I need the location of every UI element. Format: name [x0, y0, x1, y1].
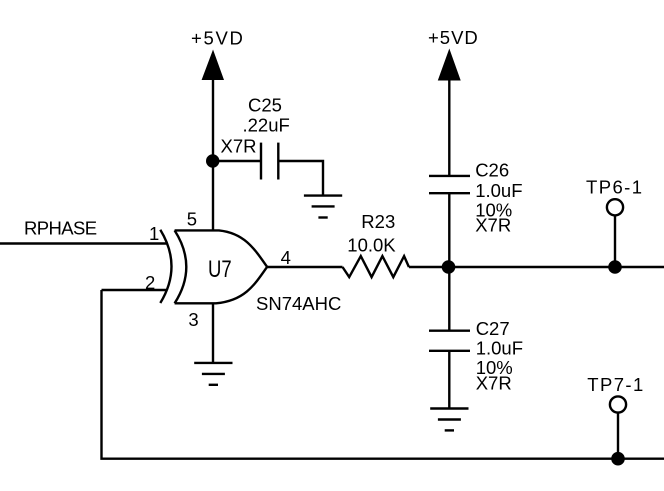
wire: junction to C27 [448, 267, 450, 331]
test point TP7-1 circle [610, 396, 626, 412]
ground (pin 3) [194, 363, 232, 385]
capacitor C27 labels [476, 318, 523, 394]
capacitor C26 [429, 176, 470, 193]
svg-text:1.0uF: 1.0uF [476, 338, 523, 359]
wire: C26 to junction [448, 193, 450, 267]
svg-text:5: 5 [187, 209, 197, 230]
resistor R23 labels [347, 211, 396, 256]
capacitor C25 value labels [221, 95, 290, 157]
svg-text:.22uF: .22uF [243, 115, 290, 136]
power +5VD (left) arrow symbol [202, 51, 223, 80]
node junction dot TP6-1 [608, 260, 622, 274]
svg-text:R23: R23 [361, 211, 395, 232]
wire: C25 right plate to ground [278, 161, 323, 196]
node junction dot at +5VD stem / C25 [206, 154, 219, 167]
node junction dot TP7-1 [611, 452, 625, 466]
svg-text:X7R: X7R [476, 373, 512, 394]
svg-text:1.0uF: 1.0uF [475, 180, 522, 201]
wire: gate output to R23 [267, 266, 342, 268]
svg-text:TP6-1: TP6-1 [586, 176, 643, 197]
svg-text:RPHASE: RPHASE [24, 218, 97, 239]
wire: +5VD left stem [212, 79, 214, 161]
svg-text:+5VD: +5VD [428, 27, 479, 48]
wire: feedback vertical and bottom run [102, 290, 664, 459]
wire: junction to C25 left plate [213, 160, 261, 162]
capacitor C25 [261, 143, 278, 180]
test point TP6-1 circle [607, 199, 623, 215]
wire: R23 to junction [409, 266, 449, 268]
ground (C25) [304, 196, 342, 218]
svg-text:U7: U7 [208, 256, 232, 283]
svg-text:2: 2 [145, 272, 155, 293]
wire: TP7-1 stem [617, 413, 619, 459]
svg-text:C26: C26 [475, 160, 509, 181]
svg-text:SN74AHC: SN74AHC [256, 293, 341, 314]
wire: C27 to ground [448, 351, 450, 409]
resistor R23 [343, 256, 409, 277]
wire: RPHASE to pin 1 [0, 242, 167, 244]
svg-text:TP7-1: TP7-1 [587, 374, 644, 395]
svg-text:X7R: X7R [475, 215, 511, 236]
op-amp gate U7 XOR body [160, 230, 267, 304]
svg-text:4: 4 [281, 247, 291, 268]
svg-text:3: 3 [188, 309, 198, 330]
svg-text:1: 1 [149, 223, 159, 244]
svg-text:X7R: X7R [221, 136, 257, 157]
node junction dot at R23 / C26 / C27 [442, 260, 456, 274]
wire: TP6-1 stem [614, 215, 616, 267]
wire: pin 3 to ground [212, 303, 214, 363]
capacitor C27 [429, 331, 470, 351]
svg-text:+5VD: +5VD [191, 28, 245, 49]
wire: feedback to pin 2 [102, 289, 167, 291]
capacitor C26 labels [475, 160, 522, 236]
wire: junction to TP6 and right edge [449, 266, 664, 268]
wire: +5VD right stem to C26 [448, 79, 450, 176]
wire: pin 5 from junction to gate top [212, 161, 214, 230]
svg-text:10.0K: 10.0K [347, 235, 396, 256]
svg-text:C25: C25 [248, 95, 282, 116]
ground (C27) [430, 409, 468, 431]
svg-text:C27: C27 [476, 318, 510, 339]
power +5VD (right) arrow symbol [439, 50, 461, 80]
